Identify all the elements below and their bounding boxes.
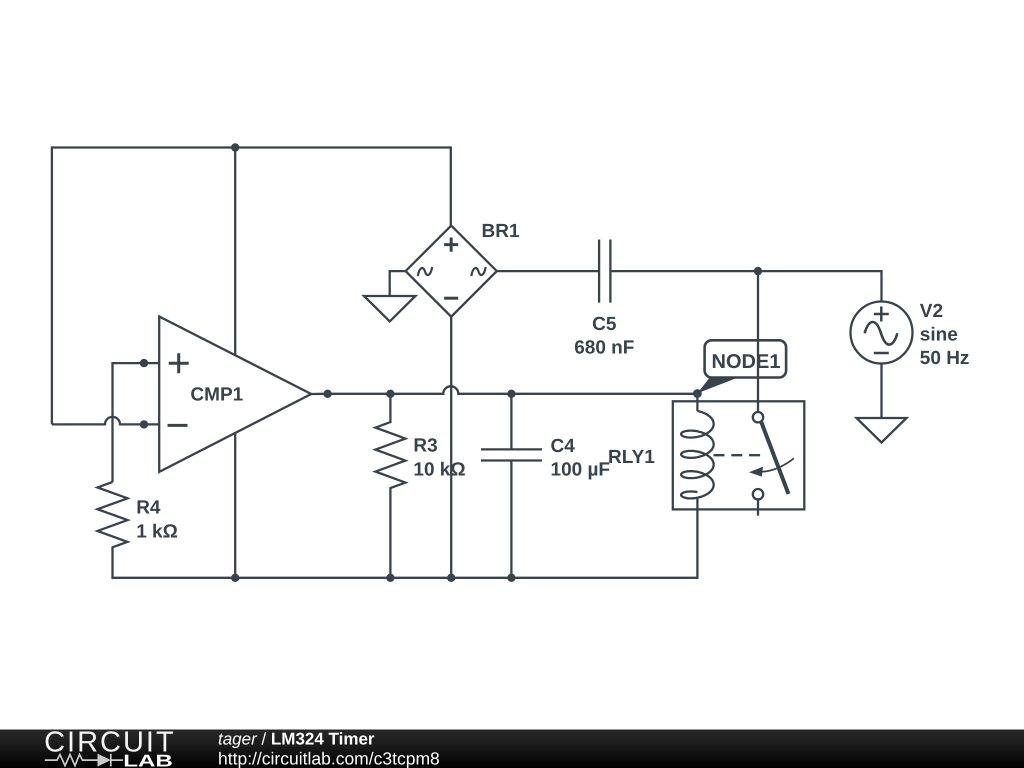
svg-text:680 nF: 680 nF: [574, 338, 634, 359]
svg-text:BR1: BR1: [482, 221, 520, 242]
svg-text:10 kΩ: 10 kΩ: [413, 459, 465, 480]
svg-text:RLY1: RLY1: [608, 447, 655, 468]
svg-text:R4: R4: [136, 497, 161, 518]
svg-text:V2: V2: [920, 301, 943, 322]
svg-text:tager / LM324 Timer: tager / LM324 Timer: [218, 730, 375, 749]
svg-text:NODE1: NODE1: [712, 351, 781, 373]
svg-text:1 kΩ: 1 kΩ: [136, 522, 178, 543]
svg-text:C4: C4: [551, 436, 576, 457]
svg-text:LAB: LAB: [123, 752, 173, 768]
svg-text:C5: C5: [592, 314, 617, 335]
svg-text:100 µF: 100 µF: [551, 460, 611, 481]
svg-text:sine: sine: [920, 325, 958, 346]
svg-text:50 Hz: 50 Hz: [920, 348, 970, 369]
svg-text:CMP1: CMP1: [190, 385, 243, 406]
svg-text:http://circuitlab.com/c3tcpm8: http://circuitlab.com/c3tcpm8: [218, 749, 440, 768]
svg-text:R3: R3: [413, 436, 437, 457]
